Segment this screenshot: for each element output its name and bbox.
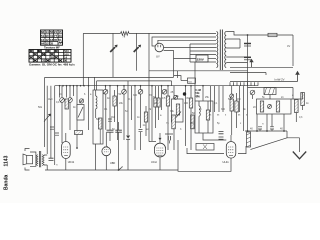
trimmer capacitor third [79, 99, 83, 103]
wire: heater taps [226, 57, 247, 63]
svg-text:0,5: 0,5 [196, 96, 200, 99]
wire: vertical x=117.5 [117, 86, 119, 140]
meter shunt on return line [119, 167, 122, 170]
output tube V3 [62, 133, 71, 159]
resistor R6 [144, 112, 147, 122]
tiny value labels middle [107, 91, 200, 127]
wire: verticals below box D [257, 114, 284, 131]
wire: output measure line y=81.5 [230, 81, 298, 83]
svg-text:ImW-2V: ImW-2V [275, 77, 285, 81]
resistor in box D [276, 101, 279, 112]
wire: AVC line corner x=44.6 [44, 77, 46, 147]
wire: vertical x=135 [134, 86, 136, 150]
trimmer C [138, 90, 143, 95]
wire: main chassis bus y=85.7 [55, 85, 258, 87]
wire: vertical x=128 [127, 81, 129, 135]
wire: HT line right + drop [277, 35, 293, 66]
resistor below can B [172, 115, 176, 129]
junction dot [202, 85, 204, 87]
wire: vertical x=66.5 [66, 86, 68, 98]
power transformer TR1 [216, 30, 226, 71]
wire: top-right bus y=87.5 [248, 88, 294, 100]
svg-text:4V: 4V [287, 44, 290, 48]
IF can box B [172, 99, 184, 122]
coil in can C [199, 106, 200, 116]
wire: corner x=54.7 [54, 86, 56, 165]
small resistor pair [154, 98, 157, 107]
svg-text:1143: 1143 [4, 155, 10, 166]
svg-text:UY: UY [156, 54, 160, 58]
decoupling box [181, 78, 196, 83]
capacitor on bus [258, 127, 262, 129]
measurement label [275, 77, 285, 81]
resistor R9 [189, 98, 192, 108]
wire: vertical x=70 [69, 86, 71, 130]
svg-text:2M: 2M [190, 122, 193, 125]
IF can box C [195, 101, 213, 133]
coupling cap pair 2 [115, 130, 122, 132]
wire: vertical x=174 [173, 86, 175, 150]
svg-text:300: 300 [221, 108, 226, 111]
detector diode D3 [126, 136, 130, 139]
wire: V3 cathode down [65, 159, 67, 171]
svg-text:UBF: UBF [110, 161, 116, 165]
trimmer capacitor [60, 98, 65, 103]
wire: vertical x=88.5 [88, 77, 90, 130]
wire: UY heater line down [164, 51, 174, 78]
coupling cap pair [107, 130, 114, 132]
wire: vertical x=73.5 [73, 86, 75, 96]
svg-text:0,1: 0,1 [56, 101, 60, 104]
wire: vertical x=131.5 [131, 86, 133, 120]
wire: main HT bus y=70.8 [149, 70, 248, 72]
regulator arrow on x=136.5 [134, 47, 139, 52]
fuse F1 on HT line [268, 33, 277, 36]
tone network box D [257, 99, 292, 114]
wire: grid line into V4 [149, 141, 156, 143]
wire: V5 cathode down [105, 156, 107, 170]
wire: V4 cathode down [159, 157, 161, 170]
wire: vertical x=105.5 to V5 [105, 86, 108, 147]
capacitor on x=110 [108, 119, 112, 121]
svg-text:1M: 1M [111, 116, 114, 119]
wire: vertical x=124 [123, 86, 125, 140]
capacitor on x=140.5 [139, 130, 143, 132]
wire: secondary taps to 4V winding [226, 39, 240, 48]
svg-text:51: 51 [58, 38, 62, 42]
feedback network box [196, 144, 214, 151]
vertical model text "Banda 1143" [4, 155, 10, 190]
resistor R10b [235, 101, 239, 112]
wire: UY anode to transformer tap [152, 37, 216, 46]
wire: top B+ bus [83, 32, 216, 34]
mains voltage selector box [196, 55, 208, 62]
resistor R1 7k (zigzag on top bus) [121, 32, 129, 36]
svg-text:Taratura MF: Taratura MF [44, 45, 60, 49]
svg-text:220V: 220V [197, 58, 204, 62]
wire: vertical x=140.5 [140, 86, 142, 128]
junction dots on chassis bus [59, 85, 192, 87]
electrolytic C2 [244, 56, 251, 58]
trimmer in box D [268, 105, 272, 109]
svg-text:Gamme: OL OM OC fer. 468 kc/s: Gamme: OL OM OC fer. 468 kc/s [29, 63, 75, 67]
svg-text:UF41: UF41 [68, 160, 75, 164]
wire: filter cap branch x=247.5 [247, 35, 249, 131]
rectifier tube UY [155, 43, 164, 58]
wire: V6 cathode loop [178, 140, 231, 171]
loudspeaker LS [23, 149, 36, 171]
secondary winding [225, 32, 226, 68]
ground arrow [293, 152, 306, 159]
wire: vertical x=59.5 [59, 86, 61, 98]
caps left of output tube [219, 132, 224, 134]
heater drop wires [211, 86, 244, 131]
svg-text:AVC: AVC [48, 98, 53, 101]
junction dots bottom bus [247, 130, 285, 132]
coupling cap [49, 158, 54, 160]
wire: bus y=80.9 [97, 81, 172, 86]
wire: corner drop x=96.6 [96, 81, 98, 90]
svg-text:28: 28 [51, 56, 55, 60]
alignment table 1 (top-left small table) [41, 30, 63, 46]
table 1 caption [44, 45, 60, 49]
resistor in can C [206, 110, 209, 120]
wire: vertical x=152 [151, 86, 153, 141]
wire: chassis return line [45, 169, 178, 171]
wire: vertical x=155.5 [155, 86, 157, 128]
regulator arrow on x=113 [110, 47, 115, 52]
wire: bottom-right bus to ground [245, 131, 300, 152]
resistor R8 in can B [176, 104, 179, 115]
svg-text:1M: 1M [237, 98, 240, 101]
wire: UY cathode line [164, 47, 216, 49]
component box (hatched) [264, 88, 276, 95]
svg-text:UCH: UCH [151, 160, 157, 164]
tone switch arrow [44, 115, 50, 121]
electrolytic C1 [244, 43, 251, 45]
svg-text:UL41: UL41 [223, 160, 230, 164]
output tube V6 [226, 142, 236, 159]
dial lamp arrow (up) [251, 62, 253, 68]
trimmer C [162, 90, 167, 95]
scattered value labels [48, 93, 309, 131]
wire: drop x=149 (long, to converter grid line) [148, 33, 150, 141]
wire: vertical x=77 [76, 86, 78, 148]
node dot [247, 34, 249, 36]
wire: pickup line y=72.5 [230, 73, 266, 76]
coil L1 in can A [96, 96, 97, 109]
svg-text:75: 75 [42, 52, 46, 56]
capacitor right of V4 [168, 136, 170, 140]
wire: extra primary tap stubs [190, 44, 216, 62]
resistor R11 [295, 100, 299, 113]
wire: vertical x=161.5 [161, 86, 163, 110]
resistor R3 (horizontal) [75, 131, 83, 135]
trimmer C [250, 90, 255, 95]
alignment table 2 (wide table with X marks) [29, 49, 71, 63]
resistor R13 (hatched) [247, 132, 251, 147]
band switch contact [176, 112, 181, 118]
wire: vertical x=50.9 [50, 86, 52, 158]
svg-text:300: 300 [133, 94, 138, 97]
primary winding [216, 32, 217, 68]
svg-text:35: 35 [54, 38, 58, 42]
wire: heater line to selector [174, 58, 197, 60]
trimmer near detector [174, 95, 178, 99]
wire: vertical x=62 [61, 86, 63, 143]
wire: vertical x=185.5 with AVC dot [185, 86, 187, 146]
resistor R7 [166, 96, 169, 106]
heater comb ticks [230, 82, 258, 85]
wire: diagonal to ground bend [251, 138, 288, 150]
svg-text:100: 100 [184, 102, 189, 105]
output stage shield box [187, 146, 246, 154]
IF tube V5 [102, 146, 111, 156]
phono arrow (up) [297, 75, 299, 82]
wire: vertical x=47.2 [46, 86, 48, 154]
capacitor [55, 133, 59, 135]
svg-text:Banda: Banda [4, 175, 10, 191]
wire: V4 top lead with arrow [159, 133, 161, 143]
wire: V6 top lead [230, 135, 232, 142]
wire: vertical x=177.5 [177, 71, 179, 78]
IF can box A [93, 90, 103, 144]
wire: feed stub y=75.6 [174, 76, 181, 81]
output transformer OT1 [36, 151, 44, 167]
wire: vertical x=195 [194, 62, 196, 101]
wire: vertical x=110 [109, 86, 111, 130]
wire: UY top stub line to transformer [158, 40, 216, 44]
wire: vertical x=158.5 [158, 86, 160, 120]
capacitor [50, 127, 54, 129]
dark label rows [196, 89, 201, 98]
resistor right [191, 115, 195, 129]
wire: vertical x=203 [202, 86, 204, 101]
wire: can C to output grid [203, 133, 226, 140]
resistor in can A [99, 118, 102, 129]
wire: OT1 leads [36, 155, 47, 170]
capacitor label [80, 100, 83, 104]
resistor R12 [301, 93, 305, 106]
resistor R2 [65, 99, 68, 109]
trimmer C osc [103, 90, 108, 95]
resistor R10 with trimmer [230, 94, 234, 98]
resistor in box D [260, 101, 263, 112]
resistor R5 [113, 96, 116, 106]
trimmer C [122, 90, 127, 95]
capacitor on bus [270, 127, 274, 129]
wire: bus y=77.4 [45, 76, 174, 78]
potentiometer P1 [77, 105, 84, 121]
wire: drop x=113 with regulator arrow [112, 33, 114, 77]
wire: selector to transformer [208, 58, 216, 60]
wire: lamp line y=67.3 [230, 66, 293, 68]
svg-text:0,1: 0,1 [129, 98, 133, 101]
wire: drop x=136.5 with regulator arrow [136, 33, 138, 70]
core [220, 30, 222, 71]
wire: y=99 link [291, 98, 303, 100]
wire: vertical x=114.6 [114, 90, 116, 122]
junction dot (big) [183, 92, 186, 95]
terminal label specks [209, 115, 248, 117]
wire: left drop x=83.3 [82, 33, 84, 85]
trimmer capacitor [68, 98, 73, 103]
wire: corner drop x=94.5 [94, 77, 96, 90]
junction dot [76, 147, 78, 149]
wire: coil leads [95, 90, 97, 118]
converter tube V4 [154, 143, 165, 157]
table 2 caption [29, 63, 75, 67]
wire: HT secondary tap [226, 32, 268, 36]
